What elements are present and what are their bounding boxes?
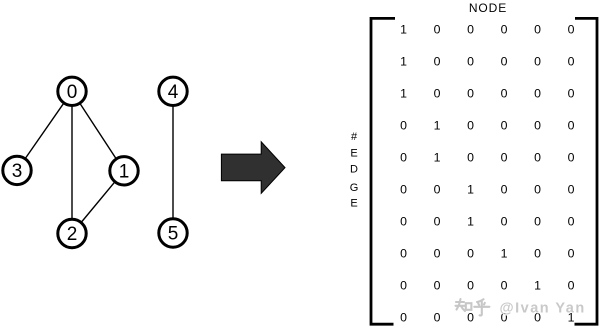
svg-text:#: # — [351, 131, 358, 143]
wire edge 1-2 — [72, 171, 124, 234]
node 3 — [3, 156, 31, 184]
svg-text:3: 3 — [12, 161, 23, 182]
svg-text:E: E — [350, 148, 357, 160]
node 4 — [159, 77, 187, 105]
node 1 — [110, 157, 138, 185]
node 0 — [58, 77, 86, 105]
wire edge 0-3 — [17, 91, 72, 170]
wire edge 4-5 — [172, 91, 174, 233]
label # EDGE — [350, 131, 359, 209]
svg-text:1: 1 — [119, 162, 130, 183]
svg-text:5: 5 — [168, 224, 179, 245]
wire edge 0-2 — [71, 91, 73, 233]
node 5 — [159, 219, 187, 247]
left bracket — [371, 18, 395, 324]
arrow — [221, 142, 285, 194]
svg-text:4: 4 — [168, 82, 179, 103]
svg-text:E: E — [350, 197, 357, 209]
svg-text:D: D — [350, 164, 358, 176]
svg-text:NODE: NODE — [469, 1, 507, 15]
right bracket — [575, 18, 598, 324]
node 2 — [58, 219, 86, 247]
watermark zhihu glyphs — [457, 300, 491, 316]
svg-text:0: 0 — [67, 82, 78, 103]
svg-text:2: 2 — [67, 224, 78, 245]
wire edge 0-1 — [72, 91, 124, 171]
svg-text:G: G — [350, 182, 359, 194]
svg-text:@Ivan Yan: @Ivan Yan — [500, 301, 586, 317]
